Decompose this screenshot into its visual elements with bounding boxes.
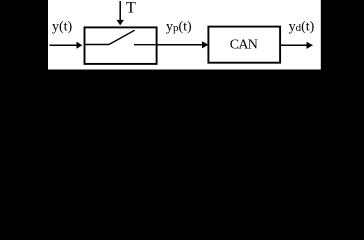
svg-text:yp(t): yp(t) — [166, 19, 192, 34]
svg-text:yd(t): yd(t) — [289, 19, 315, 34]
svg-text:y(t): y(t) — [52, 19, 73, 34]
svg-text:CAN: CAN — [230, 38, 258, 53]
svg-text:T: T — [126, 0, 136, 17]
